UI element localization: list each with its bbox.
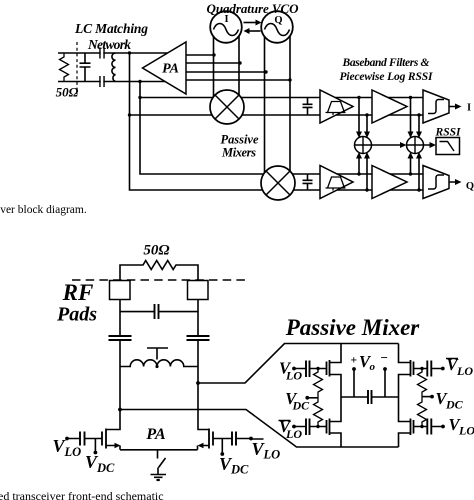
- svg-text:RF: RF: [62, 280, 94, 305]
- svg-text:DC: DC: [230, 463, 249, 477]
- svg-text:Q: Q: [274, 15, 282, 26]
- svg-text:LO: LO: [263, 448, 281, 462]
- svg-text:I: I: [467, 103, 471, 114]
- svg-text:50Ω: 50Ω: [143, 243, 169, 259]
- svg-text:o: o: [370, 361, 376, 373]
- svg-text:−: −: [381, 350, 388, 365]
- svg-text:LO: LO: [285, 369, 302, 383]
- svg-text:LO: LO: [458, 424, 474, 438]
- svg-text:+: +: [351, 355, 358, 367]
- svg-text:LO: LO: [456, 364, 473, 378]
- svg-text:DC: DC: [292, 399, 311, 413]
- svg-text:LO: LO: [64, 445, 82, 459]
- svg-text:LC Matching: LC Matching: [74, 21, 148, 36]
- svg-text:Passive: Passive: [221, 133, 259, 147]
- svg-text:Passive Mixer: Passive Mixer: [285, 315, 421, 340]
- svg-text:Network: Network: [87, 37, 131, 52]
- svg-text:50Ω: 50Ω: [56, 85, 79, 100]
- svg-text:Pads: Pads: [56, 304, 97, 326]
- svg-text:iver block diagram.: iver block diagram.: [0, 204, 87, 216]
- svg-text:I: I: [224, 14, 228, 25]
- svg-text:Piecewise Log RSSI: Piecewise Log RSSI: [340, 71, 434, 83]
- svg-text:Mixers: Mixers: [221, 146, 256, 160]
- svg-text:Baseband Filters &: Baseband Filters &: [342, 57, 430, 69]
- svg-text:ed transceiver front-end schem: ed transceiver front-end schematic: [0, 489, 164, 500]
- svg-text:PA: PA: [162, 62, 179, 77]
- svg-text:DC: DC: [445, 398, 464, 412]
- svg-text:Quadrature VCO: Quadrature VCO: [207, 1, 300, 16]
- svg-text:LO: LO: [285, 427, 302, 441]
- svg-text:Q: Q: [466, 181, 474, 192]
- svg-text:DC: DC: [96, 461, 115, 475]
- svg-text:PA: PA: [145, 426, 166, 443]
- svg-text:RSSI: RSSI: [435, 127, 461, 139]
